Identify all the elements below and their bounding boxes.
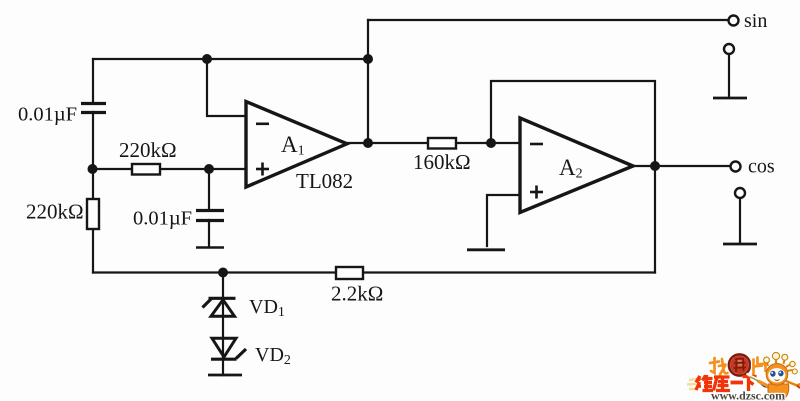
svg-text:0.01µF: 0.01µF — [18, 104, 77, 126]
wire A2 feedback loop — [491, 81, 655, 166]
watermark red text xia — [743, 377, 757, 392]
ground bar below sin — [713, 97, 747, 100]
svg-text:cos: cos — [748, 156, 775, 178]
resistor R1 220k horizontal — [132, 164, 160, 175]
svg-text:0.01µF: 0.01µF — [133, 208, 192, 230]
wire sin ground lead — [728, 54, 730, 96]
junction dot A1 output — [363, 138, 373, 148]
svg-text:VD1: VD1 — [249, 296, 285, 320]
wire from + node down to capacitor C2 — [208, 169, 210, 210]
svg-text:TL082: TL082 — [296, 169, 353, 193]
ground bar under VD2 — [208, 374, 242, 377]
op-amp A1 — [246, 102, 347, 188]
resistor R3 160k — [428, 138, 456, 149]
wire A1 output to R3 — [347, 142, 428, 144]
watermark red text ku — [714, 377, 731, 391]
svg-text:220kΩ: 220kΩ — [119, 138, 177, 162]
op-amp A2 plus sign — [530, 186, 543, 199]
watermark red text yi — [731, 381, 744, 385]
wire R3 to A2 inverting input — [456, 142, 520, 144]
wire sin line — [368, 19, 728, 21]
watermark char pian — [754, 358, 766, 375]
capacitor C2 0.01uF — [196, 211, 224, 221]
junction dot A2 inverting node — [486, 138, 496, 148]
wire inverting input branch A1 — [207, 59, 246, 116]
svg-text:220kΩ: 220kΩ — [26, 200, 84, 224]
watermark char zhao — [710, 358, 728, 375]
watermark mascot — [758, 352, 800, 401]
ground bar A2 plus input — [467, 248, 505, 251]
watermark pencil — [747, 374, 773, 390]
output terminal cos circle — [731, 162, 741, 172]
wire top rail — [93, 58, 368, 60]
junction dot A2 output — [650, 161, 660, 171]
op-amp A2 minus sign — [530, 143, 543, 146]
wire bottom rail with resistor R4 leads — [93, 271, 336, 273]
op-amp A2 — [520, 118, 633, 213]
wire vertical from sin line to A1 output — [367, 20, 369, 143]
junction dot top rail / output branch — [363, 54, 373, 64]
junction dot left node — [88, 164, 98, 174]
wire left vertical upper (top rail to capacitor C1) — [92, 59, 94, 103]
wire A2 output down to bottom rail — [654, 166, 656, 273]
svg-text:sin: sin — [744, 10, 767, 32]
svg-text:A1: A1 — [281, 132, 305, 159]
output terminal sin circle — [729, 16, 739, 26]
op-amp A1 plus sign — [256, 163, 269, 176]
wire cos ground lead — [739, 198, 741, 243]
svg-text:VD2: VD2 — [255, 344, 291, 368]
watermark magnifier — [727, 353, 751, 377]
ground bar under C2 — [196, 246, 224, 249]
watermark pale streaks — [687, 379, 697, 389]
wire VD branch — [222, 273, 224, 376]
wire A2 output to cos terminal — [633, 165, 730, 167]
junction dot A1 plus node — [204, 164, 214, 174]
wire C2 bottom lead — [208, 220, 210, 247]
junction dot top rail / C1 branch — [202, 54, 212, 64]
resistor R4 2.2k — [336, 267, 363, 279]
svg-text:A2: A2 — [559, 155, 583, 182]
zener diode VD1 — [203, 298, 236, 316]
wire A2 non-inverting input — [487, 195, 520, 246]
watermark dzsc logo — [687, 352, 800, 401]
zener diode VD2 — [211, 338, 246, 359]
ground terminal circle below cos — [735, 188, 745, 198]
junction dot bottom rail / VD branch — [218, 268, 228, 278]
capacitor C1 0.01uF — [81, 104, 106, 113]
svg-text:2.2kΩ: 2.2kΩ — [331, 282, 383, 306]
wire left vertical (C1 to node, to resistor, to bottom rail) — [92, 112, 94, 199]
ground bar below cos — [723, 243, 757, 246]
svg-text:160kΩ: 160kΩ — [413, 150, 471, 174]
wire non-inverting input A1 with resistor R1 leads — [93, 168, 132, 170]
op-amp A1 minus sign — [256, 123, 269, 126]
watermark red text wei — [696, 375, 713, 391]
svg-text:www.dzsc.com: www.dzsc.com — [711, 389, 785, 401]
ground terminal circle below sin — [724, 44, 734, 54]
resistor R2 220k vertical — [87, 199, 99, 229]
